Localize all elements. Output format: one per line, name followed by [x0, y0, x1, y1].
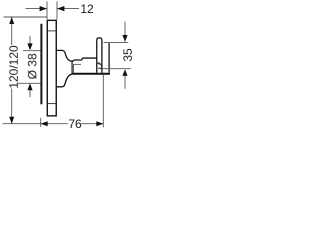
- extension line bottom of dim 35: [103, 68, 131, 70]
- corner mark: [98, 62, 101, 68]
- wall plate: [97, 38, 102, 73]
- arrowhead dim 12 left: [40, 6, 47, 11]
- arrowhead dim 76 right: [96, 121, 103, 126]
- bar inner edge bottom: [48, 103, 56, 105]
- bar inner edge top: [48, 30, 56, 32]
- extension line left of dim 12: [46, 1, 48, 19]
- dimension line 76 left segment: [41, 123, 68, 125]
- svg-text:Ø 38: Ø 38: [25, 53, 39, 79]
- label 76: [68, 117, 82, 131]
- dimension line 12 left tail: [26, 8, 48, 10]
- stem waist edge: [71, 61, 73, 73]
- extension line top of dim 35: [104, 41, 129, 43]
- extension line bottom of dim O38: [18, 82, 42, 84]
- dimension line 76 right segment: [81, 123, 103, 125]
- dimension line O38 lower segment: [29, 90, 31, 97]
- mark base segment: [98, 67, 102, 69]
- svg-text:35: 35: [121, 48, 135, 62]
- extension line top of dim O38: [23, 50, 42, 52]
- dimension line 35 upper segment: [124, 22, 126, 42]
- arrowhead dim O38 up: [27, 83, 32, 90]
- svg-text:12: 12: [80, 2, 94, 16]
- label 35: [121, 48, 135, 62]
- arrowhead dim 120/120 down: [9, 117, 14, 124]
- extension line right of dim 12: [56, 1, 58, 19]
- extension line left of dim 76: [40, 118, 42, 127]
- dimension line O38 upper segment: [29, 36, 31, 44]
- dimension line 35 lower segment: [124, 76, 126, 89]
- base bottom line: [73, 73, 110, 75]
- label O38: [25, 53, 39, 79]
- extension line right of dim 76: [102, 75, 104, 128]
- extension line bottom of dim 120/120: [3, 123, 41, 125]
- plate inner curve: [97, 61, 101, 64]
- arrowhead dim 35 down: [122, 35, 127, 42]
- arrowhead dim 35 up: [122, 69, 127, 76]
- cone base edge: [73, 64, 75, 73]
- dimension line 12 right tail: [57, 8, 79, 10]
- svg-text:76: 76: [68, 117, 82, 131]
- dimension line 120/120 lower segment: [11, 89, 13, 124]
- stem top profile: [57, 50, 97, 61]
- front face line of bar: [40, 24, 42, 105]
- svg-text:120/120: 120/120: [7, 45, 21, 89]
- vertical bar body: [47, 20, 56, 116]
- extension line top of dim 120/120: [4, 16, 47, 18]
- arrowhead dim 12 right: [57, 6, 64, 11]
- arrowhead dim 76 left: [41, 121, 48, 126]
- label 12: [80, 2, 94, 16]
- wall line: [108, 43, 110, 73]
- arrowhead dim 120/120 up: [9, 17, 14, 24]
- cone tangent line: [74, 63, 82, 65]
- label 120/120: [7, 45, 21, 89]
- stem bottom profile: [57, 74, 74, 87]
- dimension line 120/120 upper segment: [11, 17, 13, 45]
- arrowhead dim O38 down: [27, 43, 32, 50]
